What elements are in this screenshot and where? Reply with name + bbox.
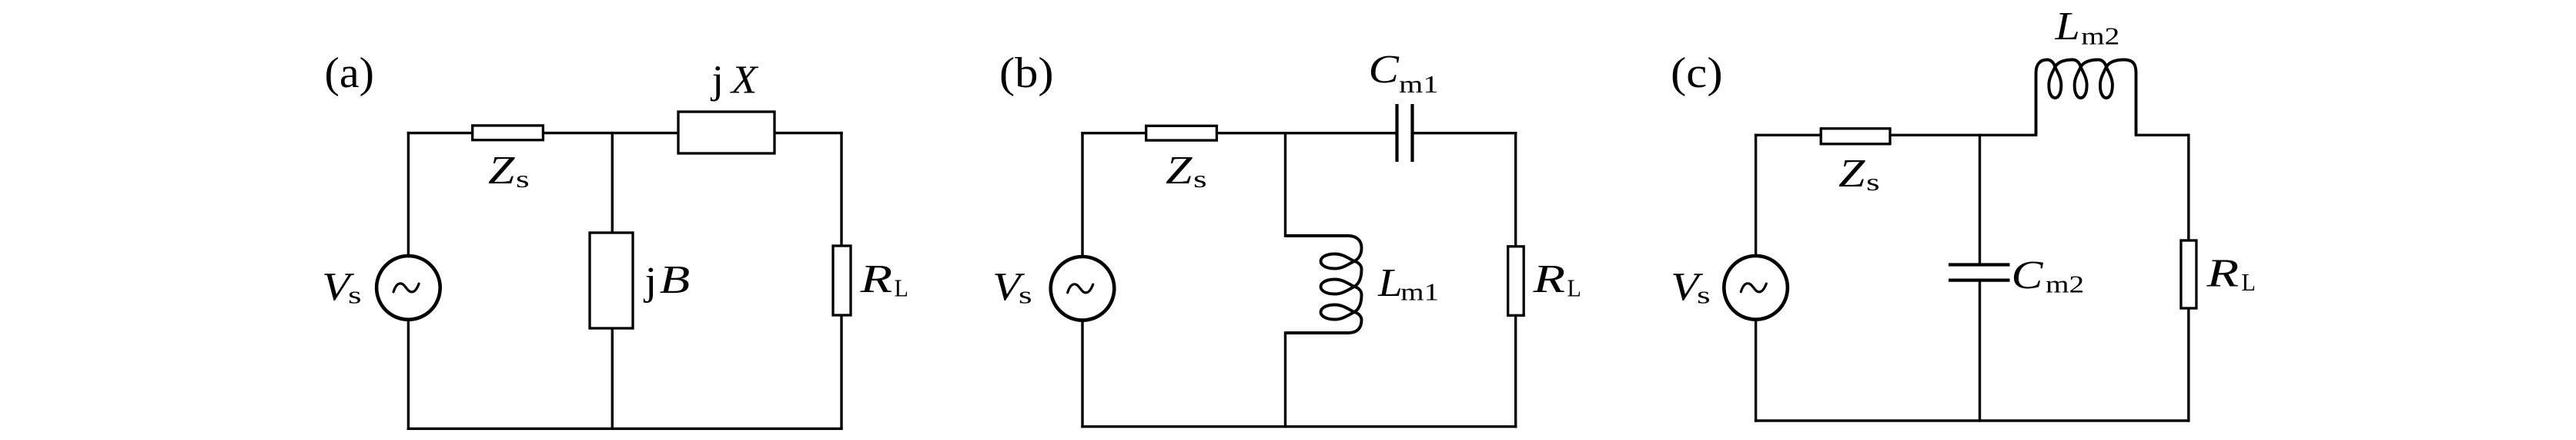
svg-text:L: L <box>2054 5 2079 49</box>
svg-text:j: j <box>643 260 657 304</box>
svg-text:X: X <box>730 59 759 102</box>
svg-text:Z: Z <box>1838 152 1866 196</box>
svg-text:s: s <box>1019 281 1032 309</box>
svg-text:Z: Z <box>488 149 516 193</box>
svg-text:s: s <box>1866 168 1880 196</box>
svg-text:m1: m1 <box>1400 278 1439 306</box>
svg-text:R: R <box>2206 252 2239 296</box>
svg-text:s: s <box>1193 165 1207 193</box>
svg-text:m1: m1 <box>1399 70 1438 98</box>
svg-text:R: R <box>1532 257 1565 301</box>
svg-text:(c): (c) <box>1671 49 1723 97</box>
svg-text:(b): (b) <box>999 49 1054 97</box>
svg-text:L: L <box>2242 268 2256 296</box>
svg-text:C: C <box>1369 48 1400 92</box>
svg-text:R: R <box>859 257 892 301</box>
svg-text:m2: m2 <box>2081 22 2119 50</box>
svg-text:Z: Z <box>1166 149 1193 193</box>
svg-text:s: s <box>348 281 362 309</box>
svg-text:L: L <box>1567 274 1581 302</box>
svg-text:s: s <box>516 165 530 193</box>
svg-text:(a): (a) <box>325 49 374 97</box>
svg-text:j: j <box>710 59 724 102</box>
svg-text:m2: m2 <box>2046 270 2084 298</box>
svg-text:L: L <box>1377 261 1403 305</box>
svg-text:L: L <box>895 274 908 302</box>
svg-text:s: s <box>1697 281 1711 309</box>
svg-text:B: B <box>660 258 690 302</box>
svg-text:C: C <box>2012 254 2044 297</box>
